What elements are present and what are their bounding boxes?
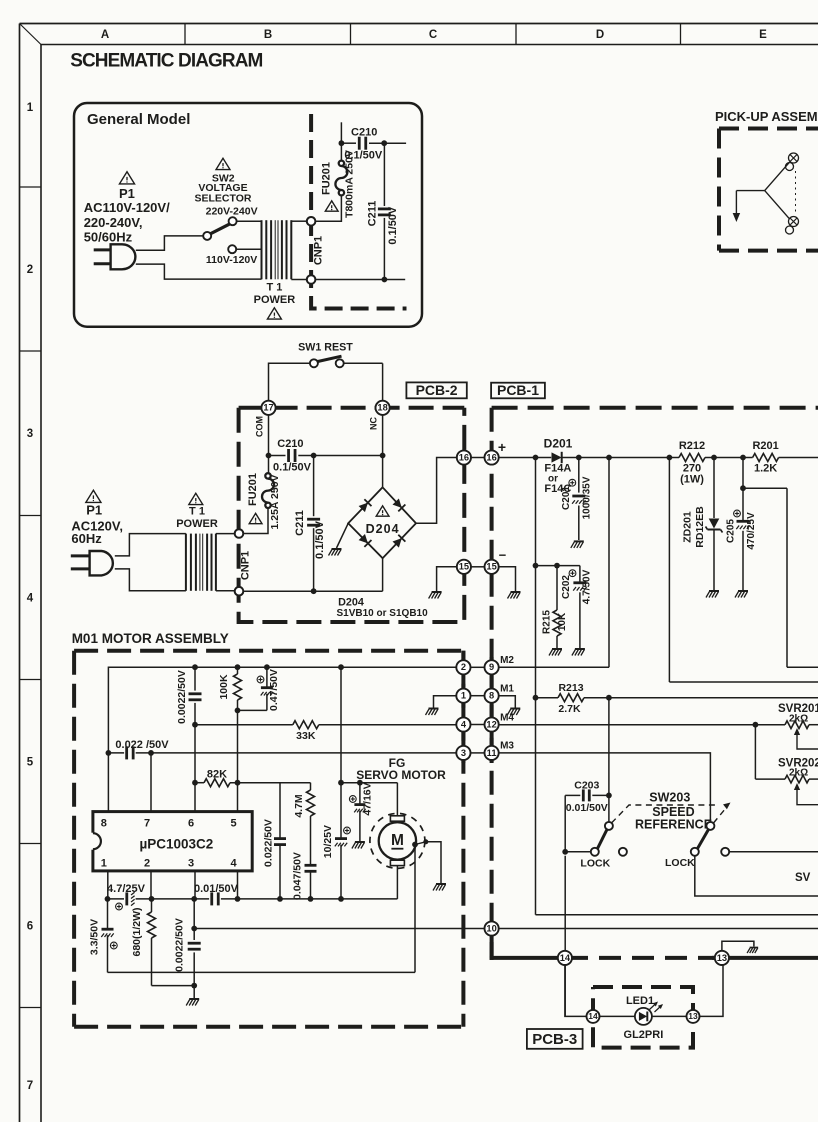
- svg-text:680(1/2W): 680(1/2W): [131, 907, 143, 956]
- svg-text:B: B: [264, 29, 272, 41]
- svg-text:0.1/50V: 0.1/50V: [273, 462, 312, 474]
- svg-text:0.022 /50V: 0.022 /50V: [115, 739, 169, 751]
- svg-text:33K: 33K: [296, 730, 316, 742]
- svg-text:10/25V: 10/25V: [322, 825, 334, 858]
- svg-text:0.0022/50V: 0.0022/50V: [176, 670, 188, 724]
- svg-text:AC110V-120V/: AC110V-120V/: [84, 200, 170, 215]
- svg-text:16: 16: [459, 452, 469, 462]
- svg-text:REFERENCE: REFERENCE: [635, 817, 712, 831]
- svg-text:16: 16: [486, 452, 496, 462]
- svg-text:9: 9: [489, 662, 494, 672]
- svg-text:NC: NC: [369, 417, 379, 430]
- svg-text:SELECTOR: SELECTOR: [195, 193, 252, 205]
- svg-text:P1: P1: [86, 503, 102, 518]
- svg-text:1000/35V: 1000/35V: [581, 476, 592, 519]
- svg-text:C205: C205: [726, 519, 737, 543]
- svg-text:M2: M2: [500, 655, 514, 666]
- svg-text:47/16V: 47/16V: [361, 782, 373, 815]
- svg-text:C211: C211: [366, 201, 378, 227]
- svg-text:4: 4: [27, 593, 34, 605]
- svg-text:S1VB10 or S1QB10: S1VB10 or S1QB10: [337, 608, 429, 619]
- svg-text:M1: M1: [500, 684, 514, 695]
- svg-text:R215: R215: [542, 610, 553, 634]
- svg-text:M4: M4: [500, 712, 514, 723]
- svg-text:2: 2: [144, 857, 150, 869]
- svg-text:R213: R213: [558, 682, 583, 694]
- svg-text:8: 8: [489, 691, 494, 701]
- svg-text:R212: R212: [679, 440, 705, 452]
- svg-text:(1W): (1W): [680, 474, 704, 486]
- svg-text:1.2K: 1.2K: [754, 462, 777, 474]
- svg-text:4.7/25V: 4.7/25V: [107, 883, 146, 895]
- svg-text:PCB-3: PCB-3: [532, 1031, 577, 1048]
- svg-text:13: 13: [688, 1011, 698, 1021]
- svg-text:CNP1: CNP1: [312, 236, 324, 265]
- svg-text:14: 14: [560, 953, 571, 963]
- svg-text:60Hz: 60Hz: [71, 531, 102, 546]
- svg-text:PCB-2: PCB-2: [416, 382, 458, 398]
- svg-text:LOCK: LOCK: [665, 857, 695, 869]
- svg-text:PICK-UP ASSEMBLY: PICK-UP ASSEMBLY: [715, 109, 818, 124]
- svg-text:3: 3: [27, 428, 33, 440]
- svg-text:LED1: LED1: [626, 995, 654, 1007]
- svg-text:220V-240V: 220V-240V: [206, 206, 258, 218]
- svg-text:RD12EB: RD12EB: [694, 506, 706, 548]
- svg-text:−: −: [499, 548, 507, 563]
- svg-text:C201: C201: [561, 486, 572, 510]
- svg-text:6: 6: [27, 921, 33, 933]
- svg-text:C203: C203: [574, 779, 599, 791]
- svg-text:17: 17: [263, 403, 273, 413]
- svg-text:6: 6: [188, 817, 194, 829]
- svg-text:8: 8: [101, 817, 107, 829]
- svg-text:0.1/50V: 0.1/50V: [314, 520, 326, 559]
- svg-text:C211: C211: [294, 510, 306, 536]
- svg-text:1: 1: [27, 102, 34, 114]
- svg-text:50/60Hz: 50/60Hz: [84, 230, 133, 245]
- svg-text:2kΩ: 2kΩ: [789, 768, 808, 779]
- svg-text:A: A: [101, 29, 109, 41]
- svg-text:4: 4: [461, 719, 467, 729]
- svg-text:14: 14: [588, 1011, 598, 1021]
- svg-text:11: 11: [487, 748, 497, 758]
- svg-text:R201: R201: [752, 440, 778, 452]
- svg-text:82K: 82K: [207, 768, 227, 780]
- svg-text:4.7M: 4.7M: [293, 794, 305, 818]
- svg-text:1.25A 250V: 1.25A 250V: [269, 474, 281, 529]
- svg-text:D: D: [596, 29, 604, 41]
- svg-text:General Model: General Model: [87, 111, 190, 128]
- svg-text:0.022/50V: 0.022/50V: [262, 819, 274, 867]
- svg-text:0.0022/50V: 0.0022/50V: [174, 918, 186, 972]
- svg-text:470/25V: 470/25V: [746, 512, 757, 550]
- svg-text:2: 2: [27, 264, 33, 276]
- svg-text:CNP1: CNP1: [239, 551, 251, 580]
- svg-text:SW1 REST: SW1 REST: [298, 341, 353, 353]
- svg-text:4.7/50V: 4.7/50V: [581, 569, 592, 604]
- svg-text:SW203: SW203: [649, 790, 690, 804]
- svg-text:7: 7: [27, 1080, 33, 1092]
- svg-text:ZD201: ZD201: [681, 511, 693, 543]
- svg-text:C210: C210: [277, 438, 303, 450]
- svg-text:10K: 10K: [557, 612, 568, 631]
- svg-text:2kΩ: 2kΩ: [789, 714, 808, 725]
- svg-text:0.1/50V: 0.1/50V: [387, 206, 399, 245]
- svg-text:5: 5: [27, 757, 34, 769]
- svg-text:C202: C202: [561, 575, 572, 599]
- svg-text:GL2PRI: GL2PRI: [624, 1029, 664, 1041]
- svg-text:COM: COM: [254, 416, 264, 437]
- svg-text:1: 1: [101, 857, 107, 869]
- svg-text:SV: SV: [795, 872, 811, 884]
- svg-text:P1: P1: [119, 186, 135, 201]
- svg-text:+: +: [498, 439, 506, 455]
- svg-text:13: 13: [717, 953, 727, 963]
- svg-text:µPC1003C2: µPC1003C2: [139, 837, 213, 852]
- svg-text:T 1: T 1: [266, 282, 282, 294]
- svg-text:3: 3: [188, 857, 194, 869]
- svg-text:3: 3: [461, 748, 466, 758]
- svg-text:E: E: [759, 29, 767, 41]
- svg-text:12: 12: [486, 719, 496, 729]
- svg-text:15: 15: [486, 562, 496, 572]
- svg-text:M01 MOTOR ASSEMBLY: M01 MOTOR ASSEMBLY: [72, 631, 229, 646]
- svg-text:110V-120V: 110V-120V: [206, 254, 257, 266]
- svg-text:0.047/50V: 0.047/50V: [291, 852, 303, 900]
- svg-text:C210: C210: [351, 126, 377, 138]
- svg-text:5: 5: [230, 817, 236, 829]
- svg-text:4: 4: [230, 857, 237, 869]
- svg-text:D201: D201: [544, 437, 573, 451]
- svg-text:3.3/50V: 3.3/50V: [88, 919, 100, 955]
- svg-text:270: 270: [683, 462, 701, 474]
- svg-text:M3: M3: [500, 741, 514, 752]
- svg-text:0.1/50V: 0.1/50V: [344, 150, 383, 162]
- svg-text:M: M: [391, 832, 404, 849]
- svg-text:7: 7: [144, 817, 150, 829]
- svg-text:18: 18: [377, 403, 387, 413]
- svg-text:SERVO MOTOR: SERVO MOTOR: [356, 768, 446, 782]
- svg-text:1: 1: [461, 691, 466, 701]
- svg-text:15: 15: [459, 562, 469, 572]
- svg-text:10: 10: [486, 923, 496, 933]
- svg-text:POWER: POWER: [254, 294, 296, 306]
- svg-text:0.47/50V: 0.47/50V: [268, 669, 280, 711]
- svg-text:D204: D204: [366, 522, 400, 536]
- svg-text:0.01/50V: 0.01/50V: [566, 802, 608, 814]
- svg-text:PCB-1: PCB-1: [497, 382, 539, 398]
- svg-text:0.01/50V: 0.01/50V: [194, 883, 239, 895]
- svg-text:SCHEMATIC DIAGRAM: SCHEMATIC DIAGRAM: [70, 50, 262, 71]
- svg-text:FU201: FU201: [321, 162, 333, 195]
- svg-text:2: 2: [461, 662, 466, 672]
- svg-text:FU201: FU201: [247, 473, 259, 506]
- svg-text:2.7K: 2.7K: [558, 703, 581, 715]
- svg-text:C: C: [429, 29, 437, 41]
- svg-text:100K: 100K: [218, 674, 230, 700]
- svg-text:POWER: POWER: [176, 518, 218, 530]
- svg-text:T 1: T 1: [189, 506, 205, 518]
- svg-text:220-240V,: 220-240V,: [84, 215, 143, 230]
- svg-text:LOCK: LOCK: [580, 857, 610, 869]
- svg-text:D204: D204: [338, 597, 364, 609]
